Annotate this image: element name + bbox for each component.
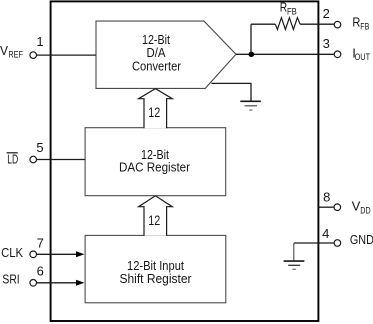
pin 1 VREF: terminal circle xyxy=(30,52,37,59)
svg-text:SRI: SRI xyxy=(2,271,19,286)
svg-text:LD: LD xyxy=(7,153,18,167)
node: feedback junction xyxy=(249,52,255,58)
pin 8 VDD: terminal circle xyxy=(334,204,341,211)
svg-text:2: 2 xyxy=(323,6,330,21)
pin 2 RFB: terminal circle xyxy=(334,21,341,28)
svg-text:R: R xyxy=(280,1,287,15)
svg-text:8: 8 xyxy=(323,190,330,205)
pin 5 LD: wire xyxy=(37,159,85,161)
pin 1 VREF: wire xyxy=(37,54,96,56)
pin 7 CLK: arrowhead into shift register xyxy=(76,251,84,257)
svg-text:6: 6 xyxy=(37,264,44,279)
svg-text:Converter: Converter xyxy=(132,59,182,74)
bus arrow: DAC Register to D/A Converter xyxy=(139,89,173,129)
svg-text:5: 5 xyxy=(36,140,43,155)
svg-text:1: 1 xyxy=(36,34,43,49)
svg-text:REF: REF xyxy=(8,50,23,61)
pin 8 VDD: wire xyxy=(319,206,335,208)
svg-text:Shift Register: Shift Register xyxy=(120,271,193,286)
ground (analog, below D/A output) xyxy=(240,101,260,110)
wire: RFB right lead to pin 2 xyxy=(300,23,334,25)
bus arrow: Shift Register to DAC Register xyxy=(139,196,173,236)
svg-text:DAC Register: DAC Register xyxy=(119,160,191,175)
svg-text:FB: FB xyxy=(287,6,297,17)
pin 7 CLK: wire xyxy=(37,253,78,255)
svg-text:GND: GND xyxy=(350,232,373,247)
svg-text:V: V xyxy=(352,199,361,214)
ground (at GND pin) xyxy=(284,261,305,269)
pin 6 SRI: wire xyxy=(37,282,78,284)
wire: junction up to RFB left lead xyxy=(250,24,252,54)
resistor RFB (zigzag) xyxy=(275,18,300,30)
svg-text:7: 7 xyxy=(37,236,44,251)
DAC block U1: 12-Bit D/A Converter (pentagon) xyxy=(96,21,236,88)
svg-text:12: 12 xyxy=(148,105,160,120)
wire: D/A output to IOUT pin 3 xyxy=(236,53,334,55)
svg-text:DD: DD xyxy=(360,205,370,216)
svg-text:FB: FB xyxy=(360,22,369,33)
register block: 12-Bit Input Shift Register xyxy=(85,235,226,302)
svg-text:CLK: CLK xyxy=(1,245,23,260)
wire: GND pin down to internal ground xyxy=(293,243,295,261)
label: 12-Bit D/A Converter xyxy=(132,32,182,74)
chip outline xyxy=(51,1,319,321)
pin 5 LD: terminal circle xyxy=(30,156,37,163)
svg-text:R: R xyxy=(352,15,360,30)
svg-text:4: 4 xyxy=(322,226,329,241)
pin 6 SRI: arrowhead into shift register xyxy=(76,280,84,286)
svg-text:V: V xyxy=(0,43,8,58)
svg-text:3: 3 xyxy=(323,36,330,51)
pin 4 GND: wire xyxy=(294,242,335,244)
label: 12-Bit Input Shift Register xyxy=(120,258,193,286)
pin 6 SRI: terminal circle xyxy=(30,280,37,287)
register block: 12-Bit DAC Register xyxy=(85,128,226,196)
svg-text:12: 12 xyxy=(148,213,160,228)
label: 12-Bit DAC Register xyxy=(119,147,191,175)
wire: tap from D/A lower slant to analog ground xyxy=(211,83,251,100)
pin 4 GND: terminal circle xyxy=(334,240,341,247)
LD overbar xyxy=(7,152,18,154)
pin 3 IOUT: terminal circle xyxy=(334,51,341,58)
wire: RFB left lead xyxy=(251,23,275,25)
svg-text:OUT: OUT xyxy=(355,52,371,63)
pin 7 CLK: terminal circle xyxy=(30,251,37,258)
